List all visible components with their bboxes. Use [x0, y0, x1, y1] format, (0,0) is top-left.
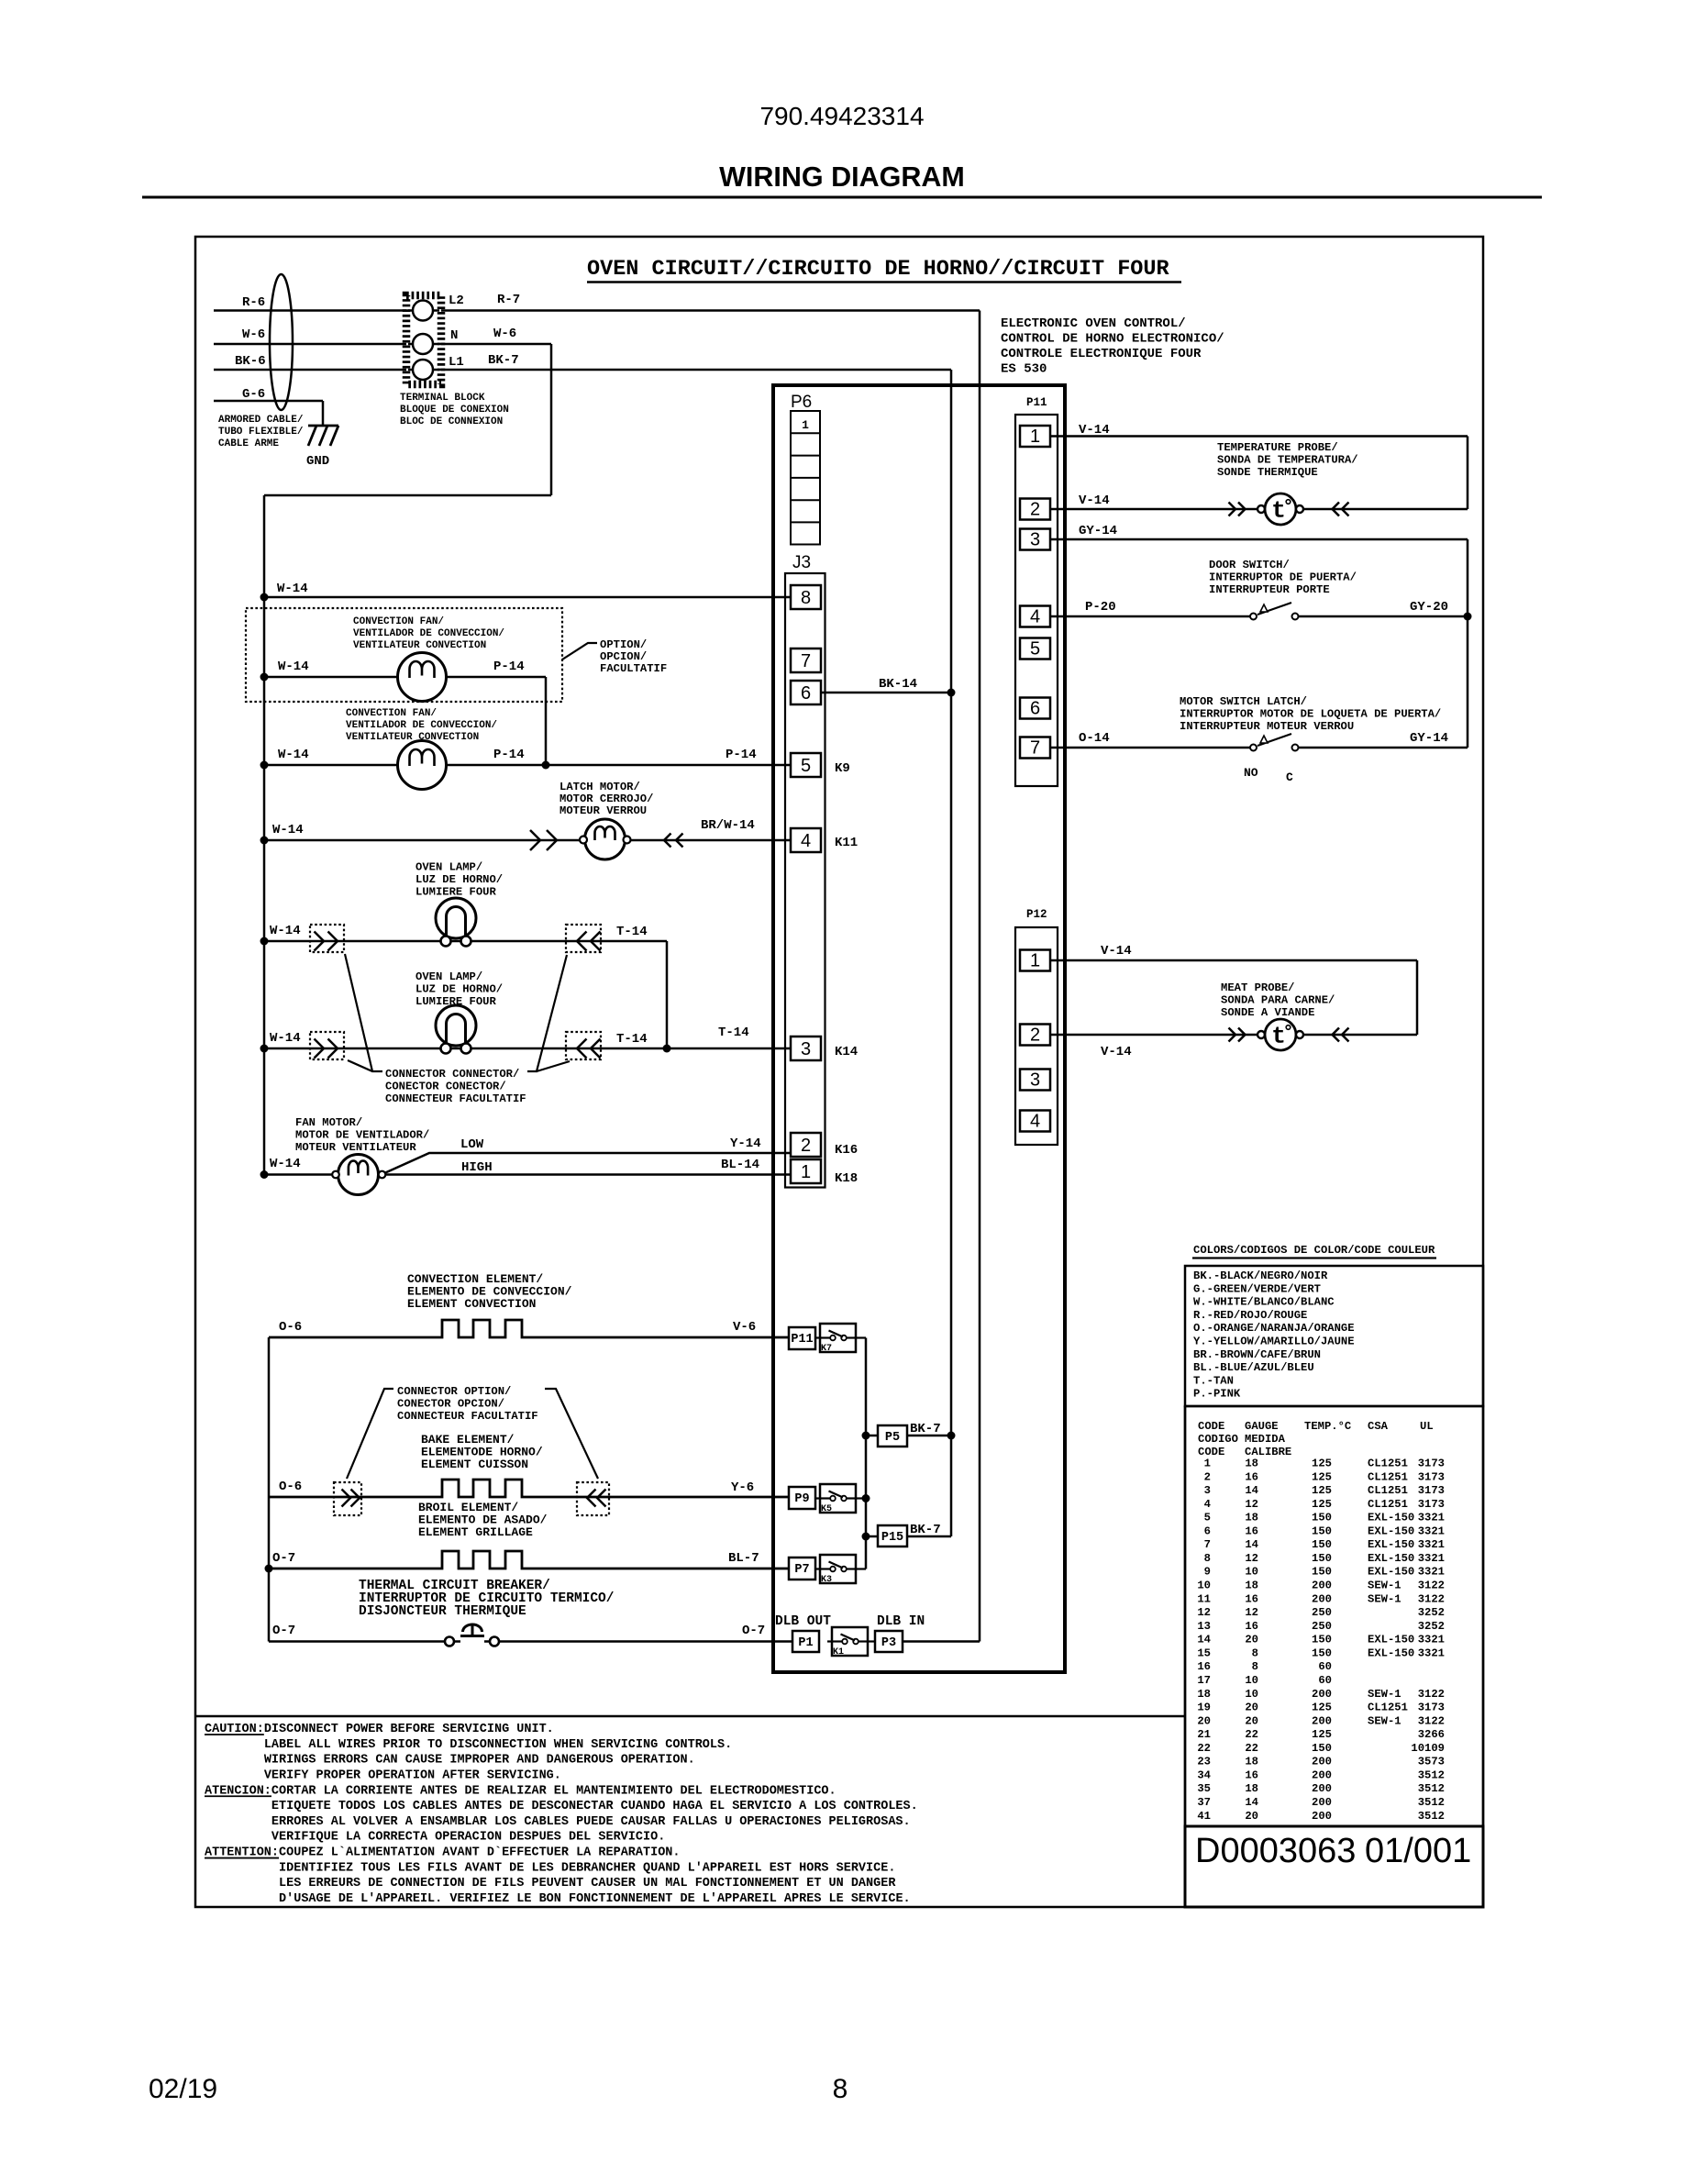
- svg-text:5: 5: [1030, 639, 1040, 660]
- relay P9 K5: [789, 1487, 815, 1509]
- wire oven lamp 2 to J3 pin 3 T-14: [264, 1048, 791, 1050]
- svg-text:W-14: W-14: [270, 1031, 301, 1046]
- svg-text:K16: K16: [835, 1143, 858, 1158]
- svg-text:3512: 3512: [1418, 1768, 1445, 1781]
- connector box lamp2 left: [310, 1032, 344, 1059]
- svg-text:150: 150: [1312, 1512, 1332, 1524]
- svg-text:INTERRUPTOR DE PUERTA/: INTERRUPTOR DE PUERTA/: [1209, 571, 1357, 584]
- svg-text:8: 8: [1204, 1552, 1211, 1565]
- svg-text:14: 14: [1245, 1538, 1258, 1551]
- svg-text:BK-7: BK-7: [910, 1523, 941, 1537]
- svg-text:MEDIDA: MEDIDA: [1245, 1433, 1286, 1446]
- svg-text:CL1251: CL1251: [1368, 1458, 1408, 1470]
- wire fan motor HIGH BL-14 to J3 pin 1: [264, 1173, 791, 1176]
- svg-text:TERMINAL BLOCK: TERMINAL BLOCK: [400, 393, 485, 404]
- svg-text:O-6: O-6: [279, 1480, 302, 1494]
- svg-text:SEW-1: SEW-1: [1368, 1688, 1401, 1701]
- svg-text:EXL-150: EXL-150: [1368, 1552, 1414, 1565]
- svg-text:16: 16: [1245, 1768, 1258, 1781]
- svg-text:34: 34: [1197, 1768, 1211, 1781]
- connector option box left: [334, 1482, 361, 1515]
- svg-text:K11: K11: [835, 836, 858, 850]
- svg-text:12: 12: [1245, 1552, 1258, 1565]
- svg-text:CONTROL DE HORNO ELECTRONICO/: CONTROL DE HORNO ELECTRONICO/: [1001, 332, 1224, 347]
- convection fan motor M1: [398, 653, 447, 702]
- meat probe RT2: [1229, 1028, 1236, 1042]
- svg-text:CONTROLE ELECTRONIQUE FOUR: CONTROLE ELECTRONIQUE FOUR: [1001, 347, 1202, 361]
- P15 BK-7: [866, 1535, 878, 1538]
- svg-text:3122: 3122: [1418, 1688, 1445, 1701]
- wire P12 pin1 V-14: [1050, 959, 1417, 962]
- svg-text:SONDE A VIANDE: SONDE A VIANDE: [1221, 1006, 1314, 1019]
- svg-text:EXL-150: EXL-150: [1368, 1524, 1414, 1537]
- svg-text:CONNECTEUR FACULTATIF: CONNECTEUR FACULTATIF: [397, 1410, 538, 1423]
- svg-text:SONDA PARA CARNE/: SONDA PARA CARNE/: [1221, 994, 1335, 1007]
- P11 pin 3: [1020, 529, 1050, 550]
- svg-text:3573: 3573: [1418, 1756, 1445, 1768]
- svg-text:V-14: V-14: [1079, 423, 1110, 438]
- svg-text:19: 19: [1197, 1702, 1211, 1714]
- svg-text:VENTILATEUR CONVECTION: VENTILATEUR CONVECTION: [353, 640, 486, 651]
- svg-text:P-20: P-20: [1085, 600, 1116, 615]
- svg-text:W-14: W-14: [270, 924, 301, 938]
- svg-text:K9: K9: [835, 761, 850, 776]
- svg-text:16: 16: [1245, 1470, 1258, 1483]
- P12 pin 1: [1020, 950, 1050, 971]
- svg-text:EXL-150: EXL-150: [1368, 1646, 1414, 1659]
- svg-text:COUPEZ L`ALIMENTATION AVANT D`: COUPEZ L`ALIMENTATION AVANT D`EFFECTUER …: [279, 1846, 680, 1860]
- svg-text:VERIFIQUE LA CORRECTA OPERACIO: VERIFIQUE LA CORRECTA OPERACION DESPUES …: [271, 1831, 665, 1845]
- svg-text:D'USAGE DE L'APPAREIL. VERIFIE: D'USAGE DE L'APPAREIL. VERIFIEZ LE BON F…: [279, 1892, 911, 1906]
- svg-text:EXL-150: EXL-150: [1368, 1512, 1414, 1524]
- svg-text:CODIGO: CODIGO: [1198, 1433, 1238, 1446]
- svg-text:7: 7: [801, 651, 811, 671]
- svg-text:EXL-150: EXL-150: [1368, 1634, 1414, 1646]
- svg-text:CODE: CODE: [1198, 1446, 1224, 1458]
- svg-text:125: 125: [1312, 1728, 1332, 1741]
- svg-text:VENTILADOR DE CONVECCION/: VENTILADOR DE CONVECCION/: [353, 628, 504, 639]
- svg-text:2: 2: [1030, 1025, 1040, 1046]
- svg-text:ELEMENT CUISSON: ELEMENT CUISSON: [421, 1458, 528, 1471]
- svg-text:ELEMENT CONVECTION: ELEMENT CONVECTION: [407, 1297, 536, 1311]
- svg-text:CABLE ARME: CABLE ARME: [218, 438, 279, 449]
- svg-text:4: 4: [1204, 1498, 1211, 1511]
- svg-text:TEMPERATURE PROBE/: TEMPERATURE PROBE/: [1217, 441, 1338, 454]
- svg-text:W-14: W-14: [278, 660, 309, 674]
- svg-text:P5: P5: [885, 1431, 900, 1445]
- bake element HE2 wire Y-6: [269, 1480, 789, 1497]
- svg-text:V-14: V-14: [1101, 1045, 1132, 1059]
- wire fan motor LOW Y-14 to J3 pin 2: [383, 1153, 791, 1174]
- temperature probe RT1: [1229, 503, 1236, 516]
- svg-text:14: 14: [1245, 1796, 1258, 1809]
- wire P12 pin2 V-14: [1050, 1034, 1257, 1037]
- svg-text:G-6: G-6: [242, 387, 265, 402]
- svg-text:GND: GND: [306, 454, 329, 469]
- svg-text:P-14: P-14: [726, 748, 757, 762]
- wire P11 pin7 O-14 GY-14: [1050, 747, 1250, 749]
- svg-text:3321: 3321: [1418, 1512, 1445, 1524]
- P11 pin 2: [1020, 499, 1050, 520]
- svg-text:O-6: O-6: [279, 1320, 302, 1335]
- svg-text:LUZ DE HORNO/: LUZ DE HORNO/: [415, 873, 503, 886]
- svg-text:BK-14: BK-14: [879, 677, 917, 692]
- svg-text:VENTILADOR DE CONVECCION/: VENTILADOR DE CONVECCION/: [346, 720, 497, 731]
- svg-text:MOTOR SWITCH LATCH/: MOTOR SWITCH LATCH/: [1180, 695, 1307, 708]
- motor switch latch S2: [1250, 745, 1257, 751]
- svg-text:ELECTRONIC OVEN CONTROL/: ELECTRONIC OVEN CONTROL/: [1001, 316, 1186, 331]
- svg-text:SEW-1: SEW-1: [1368, 1592, 1401, 1605]
- svg-text:3512: 3512: [1418, 1810, 1445, 1823]
- svg-text:O-7: O-7: [272, 1551, 295, 1566]
- svg-text:3512: 3512: [1418, 1796, 1445, 1809]
- svg-text:N: N: [450, 328, 458, 343]
- wire P11 pin4 P-20 GY-20: [1050, 615, 1250, 618]
- svg-text:3321: 3321: [1418, 1538, 1445, 1551]
- svg-text:L2: L2: [449, 294, 464, 308]
- svg-text:LATCH MOTOR/: LATCH MOTOR/: [559, 781, 640, 793]
- svg-text:200: 200: [1312, 1688, 1332, 1701]
- svg-text:18: 18: [1245, 1458, 1258, 1470]
- svg-text:C: C: [1286, 770, 1293, 784]
- svg-text:P-14: P-14: [493, 748, 525, 762]
- svg-text:01/001: 01/001: [1365, 1832, 1471, 1870]
- svg-text:R-7: R-7: [497, 293, 520, 307]
- svg-text:35: 35: [1197, 1782, 1211, 1795]
- wire G-6: [214, 400, 323, 403]
- svg-text:18: 18: [1245, 1782, 1258, 1795]
- svg-text:BK-7: BK-7: [910, 1422, 941, 1436]
- caution box: [195, 1715, 1185, 1718]
- svg-text:6: 6: [1030, 699, 1040, 719]
- svg-text:T-14: T-14: [616, 925, 648, 939]
- svg-text:K5: K5: [821, 1504, 832, 1514]
- svg-text:10: 10: [1197, 1580, 1211, 1592]
- svg-text:8: 8: [1252, 1660, 1258, 1673]
- svg-text:125: 125: [1312, 1702, 1332, 1714]
- P11 pin 4: [1020, 606, 1050, 627]
- svg-text:W-14: W-14: [272, 823, 304, 837]
- svg-text:OVEN LAMP/: OVEN LAMP/: [415, 861, 482, 874]
- wire P11 pin3 GY-14: [1050, 538, 1468, 541]
- connector box lamp2 right: [566, 1032, 601, 1059]
- svg-text:14: 14: [1197, 1634, 1211, 1646]
- svg-text:TUBO FLEXIBLE/: TUBO FLEXIBLE/: [218, 427, 304, 438]
- connector option box right: [577, 1482, 609, 1515]
- svg-text:3321: 3321: [1418, 1524, 1445, 1537]
- svg-text:BL.-BLUE/AZUL/BLEU: BL.-BLUE/AZUL/BLEU: [1193, 1361, 1314, 1374]
- svg-text:20: 20: [1245, 1702, 1258, 1714]
- door switch S1: [1250, 614, 1257, 620]
- svg-text:R-6: R-6: [242, 295, 265, 310]
- svg-text:18: 18: [1245, 1756, 1258, 1768]
- relay P1 K1 P3 DLB: [792, 1631, 819, 1652]
- svg-text:BL-7: BL-7: [728, 1551, 759, 1566]
- svg-text:125: 125: [1312, 1498, 1332, 1511]
- svg-text:BL-14: BL-14: [721, 1158, 759, 1172]
- svg-text:OVEN LAMP/: OVEN LAMP/: [415, 970, 482, 983]
- svg-text:EXL-150: EXL-150: [1368, 1538, 1414, 1551]
- wire P11 pin2 V-14: [1050, 508, 1257, 511]
- svg-text:P1: P1: [798, 1636, 813, 1650]
- wire convection fan 2 to J3 pin 5 P-14: [264, 764, 791, 767]
- oven lamp L1: [436, 898, 476, 938]
- svg-text:J3: J3: [792, 553, 811, 572]
- svg-text:16: 16: [1245, 1620, 1258, 1633]
- J3 pin 3: [791, 1037, 821, 1060]
- svg-text:15: 15: [1197, 1646, 1211, 1659]
- header rule: [142, 196, 1542, 199]
- J3 pin 5: [791, 753, 821, 777]
- svg-text:W-14: W-14: [278, 748, 309, 762]
- option dotted box: [246, 608, 562, 702]
- svg-text:O-7: O-7: [272, 1624, 295, 1638]
- svg-text:INTERRUPTEUR PORTE: INTERRUPTEUR PORTE: [1209, 583, 1330, 596]
- svg-text:5: 5: [801, 756, 811, 776]
- svg-text:4: 4: [1030, 1112, 1040, 1132]
- P11 pin 6: [1020, 698, 1050, 719]
- svg-text:200: 200: [1312, 1580, 1332, 1592]
- svg-text:3173: 3173: [1418, 1498, 1445, 1511]
- svg-text:3252: 3252: [1418, 1620, 1445, 1633]
- svg-text:Y-6: Y-6: [731, 1480, 754, 1495]
- svg-text:3: 3: [1030, 530, 1040, 550]
- svg-text:CSA: CSA: [1368, 1420, 1389, 1433]
- svg-text:CONVECTION FAN/: CONVECTION FAN/: [353, 616, 444, 627]
- wire W-6/W-14: [214, 343, 551, 346]
- J3 pin 4: [791, 828, 821, 852]
- svg-text:18: 18: [1245, 1512, 1258, 1524]
- svg-text:20: 20: [1197, 1714, 1211, 1727]
- svg-text:TEMP.°C: TEMP.°C: [1304, 1420, 1351, 1433]
- svg-text:W-14: W-14: [277, 582, 308, 596]
- terminal block TB1: [406, 295, 441, 384]
- svg-text:P-14: P-14: [493, 660, 525, 674]
- svg-text:1: 1: [1030, 951, 1040, 971]
- svg-text:9: 9: [1204, 1566, 1211, 1579]
- svg-text:t: t: [1271, 1023, 1286, 1050]
- svg-text:BR.-BROWN/CAFE/BRUN: BR.-BROWN/CAFE/BRUN: [1193, 1348, 1321, 1361]
- svg-text:DLB IN: DLB IN: [877, 1614, 925, 1629]
- svg-text:23: 23: [1197, 1756, 1211, 1768]
- svg-text:16: 16: [1245, 1592, 1258, 1605]
- document number box: [1185, 1826, 1483, 1907]
- svg-text:ES 530: ES 530: [1001, 362, 1047, 377]
- svg-text:ARMORED CABLE/: ARMORED CABLE/: [218, 415, 304, 426]
- relay P7 K3: [789, 1558, 815, 1580]
- thermal circuit breaker CB1: [445, 1637, 454, 1646]
- svg-text:T-14: T-14: [718, 1025, 749, 1040]
- svg-text:EXL-150: EXL-150: [1368, 1566, 1414, 1579]
- svg-text:FACULTATIF: FACULTATIF: [600, 662, 667, 675]
- svg-text:MOTOR DE VENTILADOR/: MOTOR DE VENTILADOR/: [295, 1129, 429, 1142]
- svg-text:7: 7: [1030, 738, 1040, 759]
- svg-text:LUMIERE FOUR: LUMIERE FOUR: [415, 886, 496, 899]
- svg-text:CONNECTOR OPTION/: CONNECTOR OPTION/: [397, 1385, 511, 1398]
- svg-text:LUZ DE HORNO/: LUZ DE HORNO/: [415, 983, 503, 996]
- wire latch motor to J3 pin 4 BR/W-14: [264, 839, 791, 842]
- P11 pin 5: [1020, 638, 1050, 660]
- svg-text:SONDA DE TEMPERATURA/: SONDA DE TEMPERATURA/: [1217, 454, 1358, 467]
- colors legend box: [1185, 1266, 1483, 1406]
- svg-text:R.-RED/ROJO/ROUGE: R.-RED/ROJO/ROUGE: [1193, 1309, 1307, 1322]
- svg-text:OVEN CIRCUIT//CIRCUITO DE HORN: OVEN CIRCUIT//CIRCUITO DE HORNO//CIRCUIT…: [587, 257, 1170, 282]
- svg-text:INTERRUPTOR MOTOR DE LOQUETA D: INTERRUPTOR MOTOR DE LOQUETA DE PUERTA/: [1180, 708, 1441, 721]
- svg-text:3252: 3252: [1418, 1606, 1445, 1619]
- svg-text:DISJONCTEUR THERMIQUE: DISJONCTEUR THERMIQUE: [359, 1604, 526, 1619]
- broil element HE3 wire BL-7: [269, 1551, 789, 1569]
- svg-text:7: 7: [1204, 1538, 1211, 1551]
- svg-text:t: t: [1271, 497, 1286, 525]
- svg-text:3: 3: [1030, 1070, 1040, 1091]
- svg-text:200: 200: [1312, 1592, 1332, 1605]
- svg-text:Y.-YELLOW/AMARILLO/JAUNE: Y.-YELLOW/AMARILLO/JAUNE: [1193, 1336, 1355, 1348]
- svg-text:P.-PINK: P.-PINK: [1193, 1388, 1241, 1401]
- svg-text:CONECTOR OPCION/: CONECTOR OPCION/: [397, 1398, 504, 1411]
- svg-text:3: 3: [801, 1039, 811, 1059]
- svg-text:150: 150: [1312, 1646, 1332, 1659]
- wire BK-14 from J3 pin 6: [821, 692, 951, 694]
- svg-text:GY-14: GY-14: [1410, 731, 1448, 746]
- svg-text:GY-20: GY-20: [1410, 600, 1448, 615]
- svg-text:V-6: V-6: [733, 1320, 756, 1335]
- svg-text:V-14: V-14: [1079, 493, 1110, 508]
- svg-text:16: 16: [1197, 1660, 1211, 1673]
- svg-text:P7: P7: [794, 1563, 809, 1577]
- svg-text:P11: P11: [791, 1333, 813, 1347]
- svg-text:LABEL ALL WIRES PRIOR TO DISCO: LABEL ALL WIRES PRIOR TO DISCONNECTION W…: [264, 1738, 732, 1752]
- svg-text:BLOQUE DE CONEXION: BLOQUE DE CONEXION: [400, 405, 509, 416]
- svg-text:MOTOR CERROJO/: MOTOR CERROJO/: [559, 793, 653, 805]
- convection element HE1 wire V-6: [269, 1320, 789, 1337]
- svg-text:3321: 3321: [1418, 1634, 1445, 1646]
- svg-text:60: 60: [1318, 1660, 1332, 1673]
- convection fan motor M2: [398, 741, 447, 790]
- svg-text:17: 17: [1197, 1674, 1211, 1687]
- svg-text:10: 10: [1245, 1674, 1258, 1687]
- svg-text:20: 20: [1245, 1810, 1258, 1823]
- svg-text:3173: 3173: [1418, 1484, 1445, 1497]
- svg-text:250: 250: [1312, 1606, 1332, 1619]
- svg-text:K1: K1: [833, 1647, 844, 1657]
- latch motor M3: [585, 819, 626, 859]
- svg-text:GAUGE: GAUGE: [1245, 1420, 1279, 1433]
- svg-text:12: 12: [1197, 1606, 1211, 1619]
- svg-text:W-14: W-14: [270, 1157, 301, 1171]
- svg-text:200: 200: [1312, 1796, 1332, 1809]
- svg-text:3122: 3122: [1418, 1714, 1445, 1727]
- J3 pin 7: [791, 649, 821, 672]
- ground GND: [308, 425, 338, 427]
- svg-text:3321: 3321: [1418, 1566, 1445, 1579]
- wire oven lamp 1 T-14: [264, 940, 667, 943]
- svg-text:P11: P11: [1026, 396, 1047, 409]
- svg-text:BK-7: BK-7: [488, 353, 519, 368]
- svg-text:BK-6: BK-6: [235, 354, 266, 369]
- svg-text:8: 8: [801, 588, 811, 608]
- svg-text:BK.-BLACK/NEGRO/NOIR: BK.-BLACK/NEGRO/NOIR: [1193, 1269, 1328, 1282]
- svg-text:3321: 3321: [1418, 1552, 1445, 1565]
- fan motor M4: [338, 1155, 379, 1195]
- svg-text:3: 3: [1204, 1484, 1211, 1497]
- svg-text:CORTAR LA CORRIENTE ANTES DE R: CORTAR LA CORRIENTE ANTES DE REALIZAR EL…: [271, 1784, 836, 1798]
- svg-text:1: 1: [1030, 427, 1040, 447]
- svg-text:12: 12: [1245, 1606, 1258, 1619]
- svg-text:200: 200: [1312, 1810, 1332, 1823]
- svg-text:DISCONNECT POWER BEFORE SERVIC: DISCONNECT POWER BEFORE SERVICING UNIT.: [264, 1723, 554, 1736]
- svg-text:18: 18: [1197, 1688, 1211, 1701]
- svg-text:3173: 3173: [1418, 1470, 1445, 1483]
- svg-text:150: 150: [1312, 1538, 1332, 1551]
- svg-text:P3: P3: [881, 1636, 896, 1650]
- svg-text:250: 250: [1312, 1620, 1332, 1633]
- svg-text:DLB OUT: DLB OUT: [775, 1614, 831, 1629]
- svg-text:2: 2: [1030, 500, 1040, 520]
- svg-text:P6: P6: [791, 393, 812, 412]
- svg-text:60: 60: [1318, 1674, 1332, 1687]
- J3 pin 1: [791, 1159, 821, 1183]
- svg-text:11: 11: [1197, 1592, 1211, 1605]
- wire convection fan 1: [264, 676, 546, 679]
- electronic oven control box ES 530: [773, 385, 1065, 1672]
- connector leader right: [527, 955, 567, 1071]
- svg-text:1: 1: [802, 418, 809, 432]
- svg-text:21: 21: [1197, 1728, 1211, 1741]
- svg-text:2: 2: [1204, 1470, 1211, 1483]
- element left bus O-6/O-7: [268, 1337, 271, 1642]
- svg-text:SEW-1: SEW-1: [1368, 1714, 1401, 1727]
- svg-text:CL1251: CL1251: [1368, 1484, 1408, 1497]
- svg-text:D0003063: D0003063: [1195, 1832, 1356, 1870]
- P5 BK-7: [866, 1435, 878, 1437]
- svg-text:K3: K3: [821, 1575, 832, 1585]
- svg-text:W-6: W-6: [242, 327, 265, 342]
- svg-text:200: 200: [1312, 1714, 1332, 1727]
- svg-text:10: 10: [1245, 1688, 1258, 1701]
- svg-text:BR/W-14: BR/W-14: [701, 818, 755, 833]
- svg-text:8: 8: [833, 2074, 848, 2104]
- svg-text:4: 4: [801, 831, 811, 851]
- svg-text:37: 37: [1197, 1796, 1211, 1809]
- svg-text:22: 22: [1245, 1728, 1258, 1741]
- svg-text:L1: L1: [449, 355, 464, 370]
- latch motor connector chevrons: [530, 830, 540, 850]
- svg-text:10109: 10109: [1411, 1742, 1445, 1755]
- svg-text:22: 22: [1197, 1742, 1211, 1755]
- diagram border: [195, 237, 1483, 1907]
- svg-text:6: 6: [1204, 1524, 1211, 1537]
- J3 pin 6: [791, 681, 821, 704]
- svg-text:ETIQUETE TODOS LOS CABLES ANTE: ETIQUETE TODOS LOS CABLES ANTES DE DESCO…: [271, 1800, 918, 1813]
- svg-text:20: 20: [1245, 1634, 1258, 1646]
- armored cable ellipse: [270, 274, 293, 410]
- relay bus vertical: [865, 1338, 868, 1569]
- option leader: [562, 643, 597, 660]
- svg-text:200: 200: [1312, 1756, 1332, 1768]
- svg-text:125: 125: [1312, 1484, 1332, 1497]
- svg-text:150: 150: [1312, 1524, 1332, 1537]
- svg-text:Y-14: Y-14: [730, 1136, 761, 1151]
- svg-text:LOW: LOW: [460, 1137, 484, 1152]
- svg-text:2: 2: [801, 1136, 811, 1156]
- svg-text:200: 200: [1312, 1782, 1332, 1795]
- svg-text:13: 13: [1197, 1620, 1211, 1633]
- svg-text:3173: 3173: [1418, 1458, 1445, 1470]
- wire O-7 DLB row: [269, 1640, 460, 1643]
- wire W-14 to J3 pin 8: [264, 596, 791, 599]
- P12 pin 3: [1020, 1070, 1050, 1091]
- svg-text:VERIFY PROPER OPERATION AFTER: VERIFY PROPER OPERATION AFTER SERVICING.: [264, 1768, 561, 1782]
